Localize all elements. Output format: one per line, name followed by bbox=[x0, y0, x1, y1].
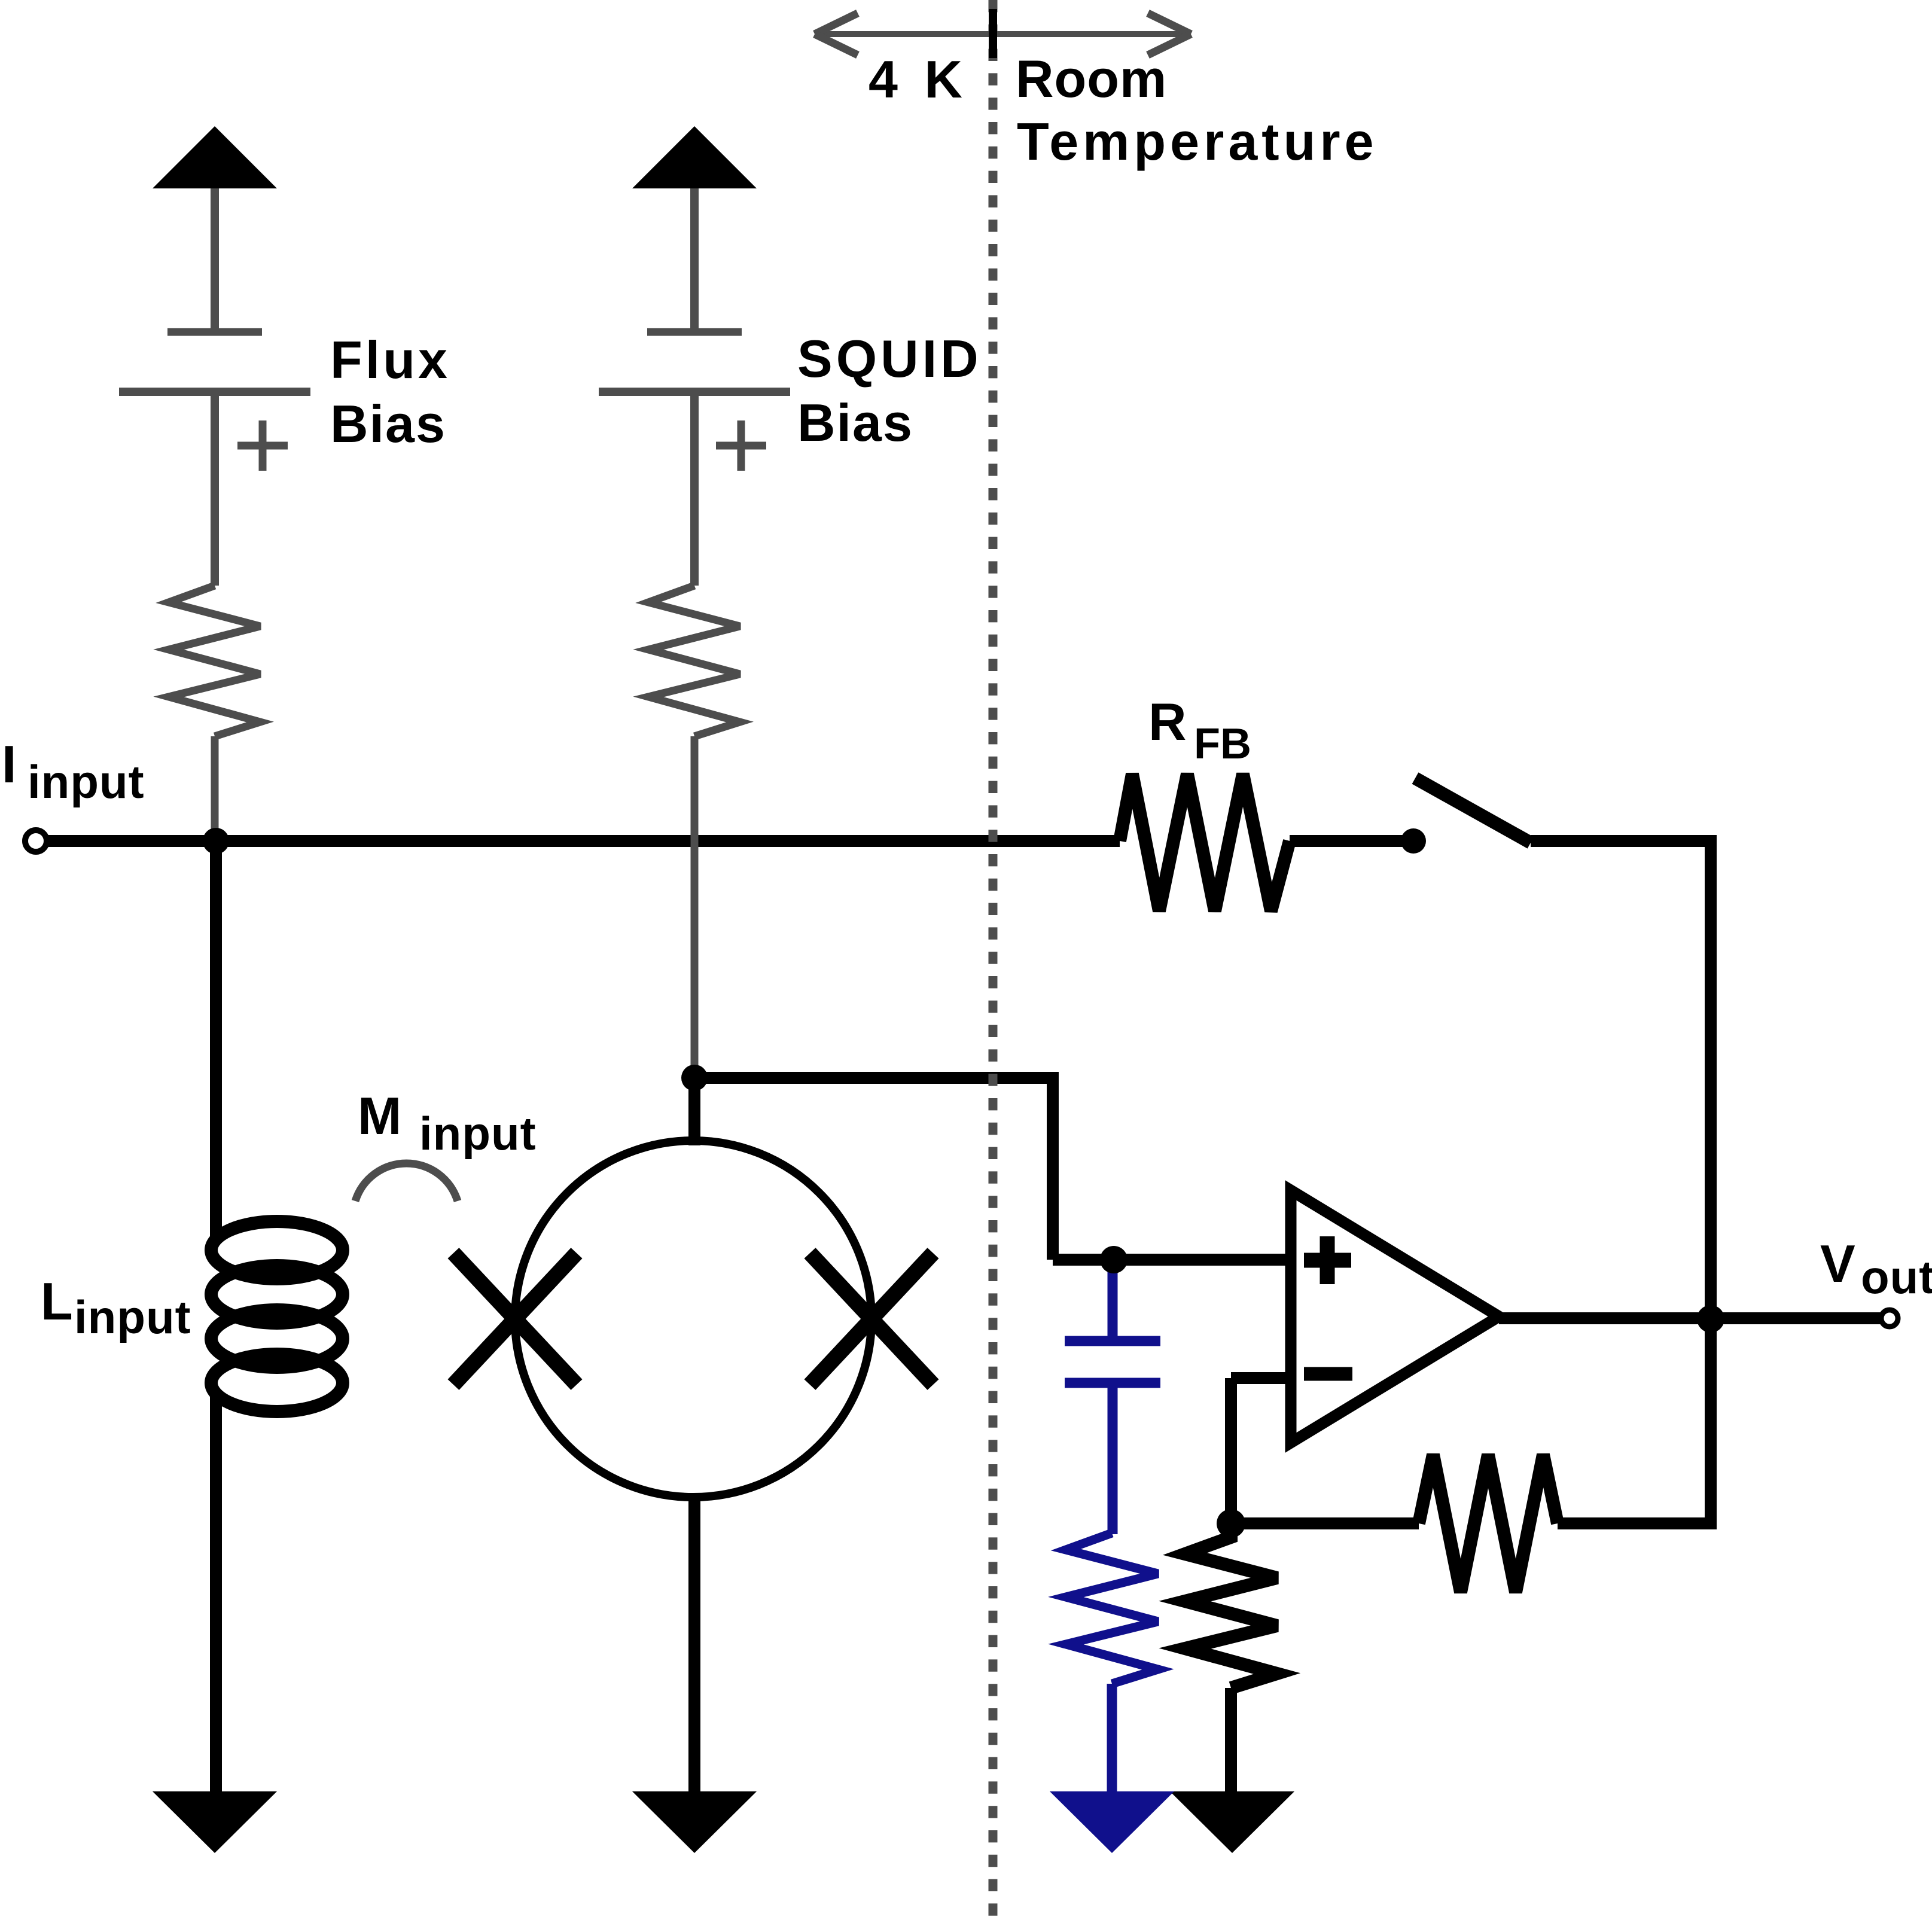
svg-text:Bias: Bias bbox=[330, 394, 446, 453]
svg-text:M: M bbox=[358, 1086, 401, 1145]
svg-text:FB: FB bbox=[1194, 720, 1251, 768]
svg-text:V: V bbox=[1820, 1234, 1855, 1293]
svg-text:Room: Room bbox=[1016, 49, 1167, 108]
svg-text:R: R bbox=[1148, 692, 1187, 751]
svg-text:Flux: Flux bbox=[330, 330, 450, 389]
svg-text:input: input bbox=[74, 1291, 191, 1343]
svg-text:Temperature: Temperature bbox=[1017, 112, 1378, 171]
svg-text:L: L bbox=[41, 1272, 73, 1331]
svg-text:input: input bbox=[419, 1107, 537, 1160]
svg-text:Bias: Bias bbox=[797, 393, 913, 452]
svg-text:input: input bbox=[28, 755, 145, 808]
svg-text:out: out bbox=[1861, 1251, 1932, 1303]
svg-text:SQUID: SQUID bbox=[797, 329, 982, 388]
svg-text:4 K: 4 K bbox=[869, 50, 968, 109]
svg-text:I: I bbox=[2, 735, 16, 794]
